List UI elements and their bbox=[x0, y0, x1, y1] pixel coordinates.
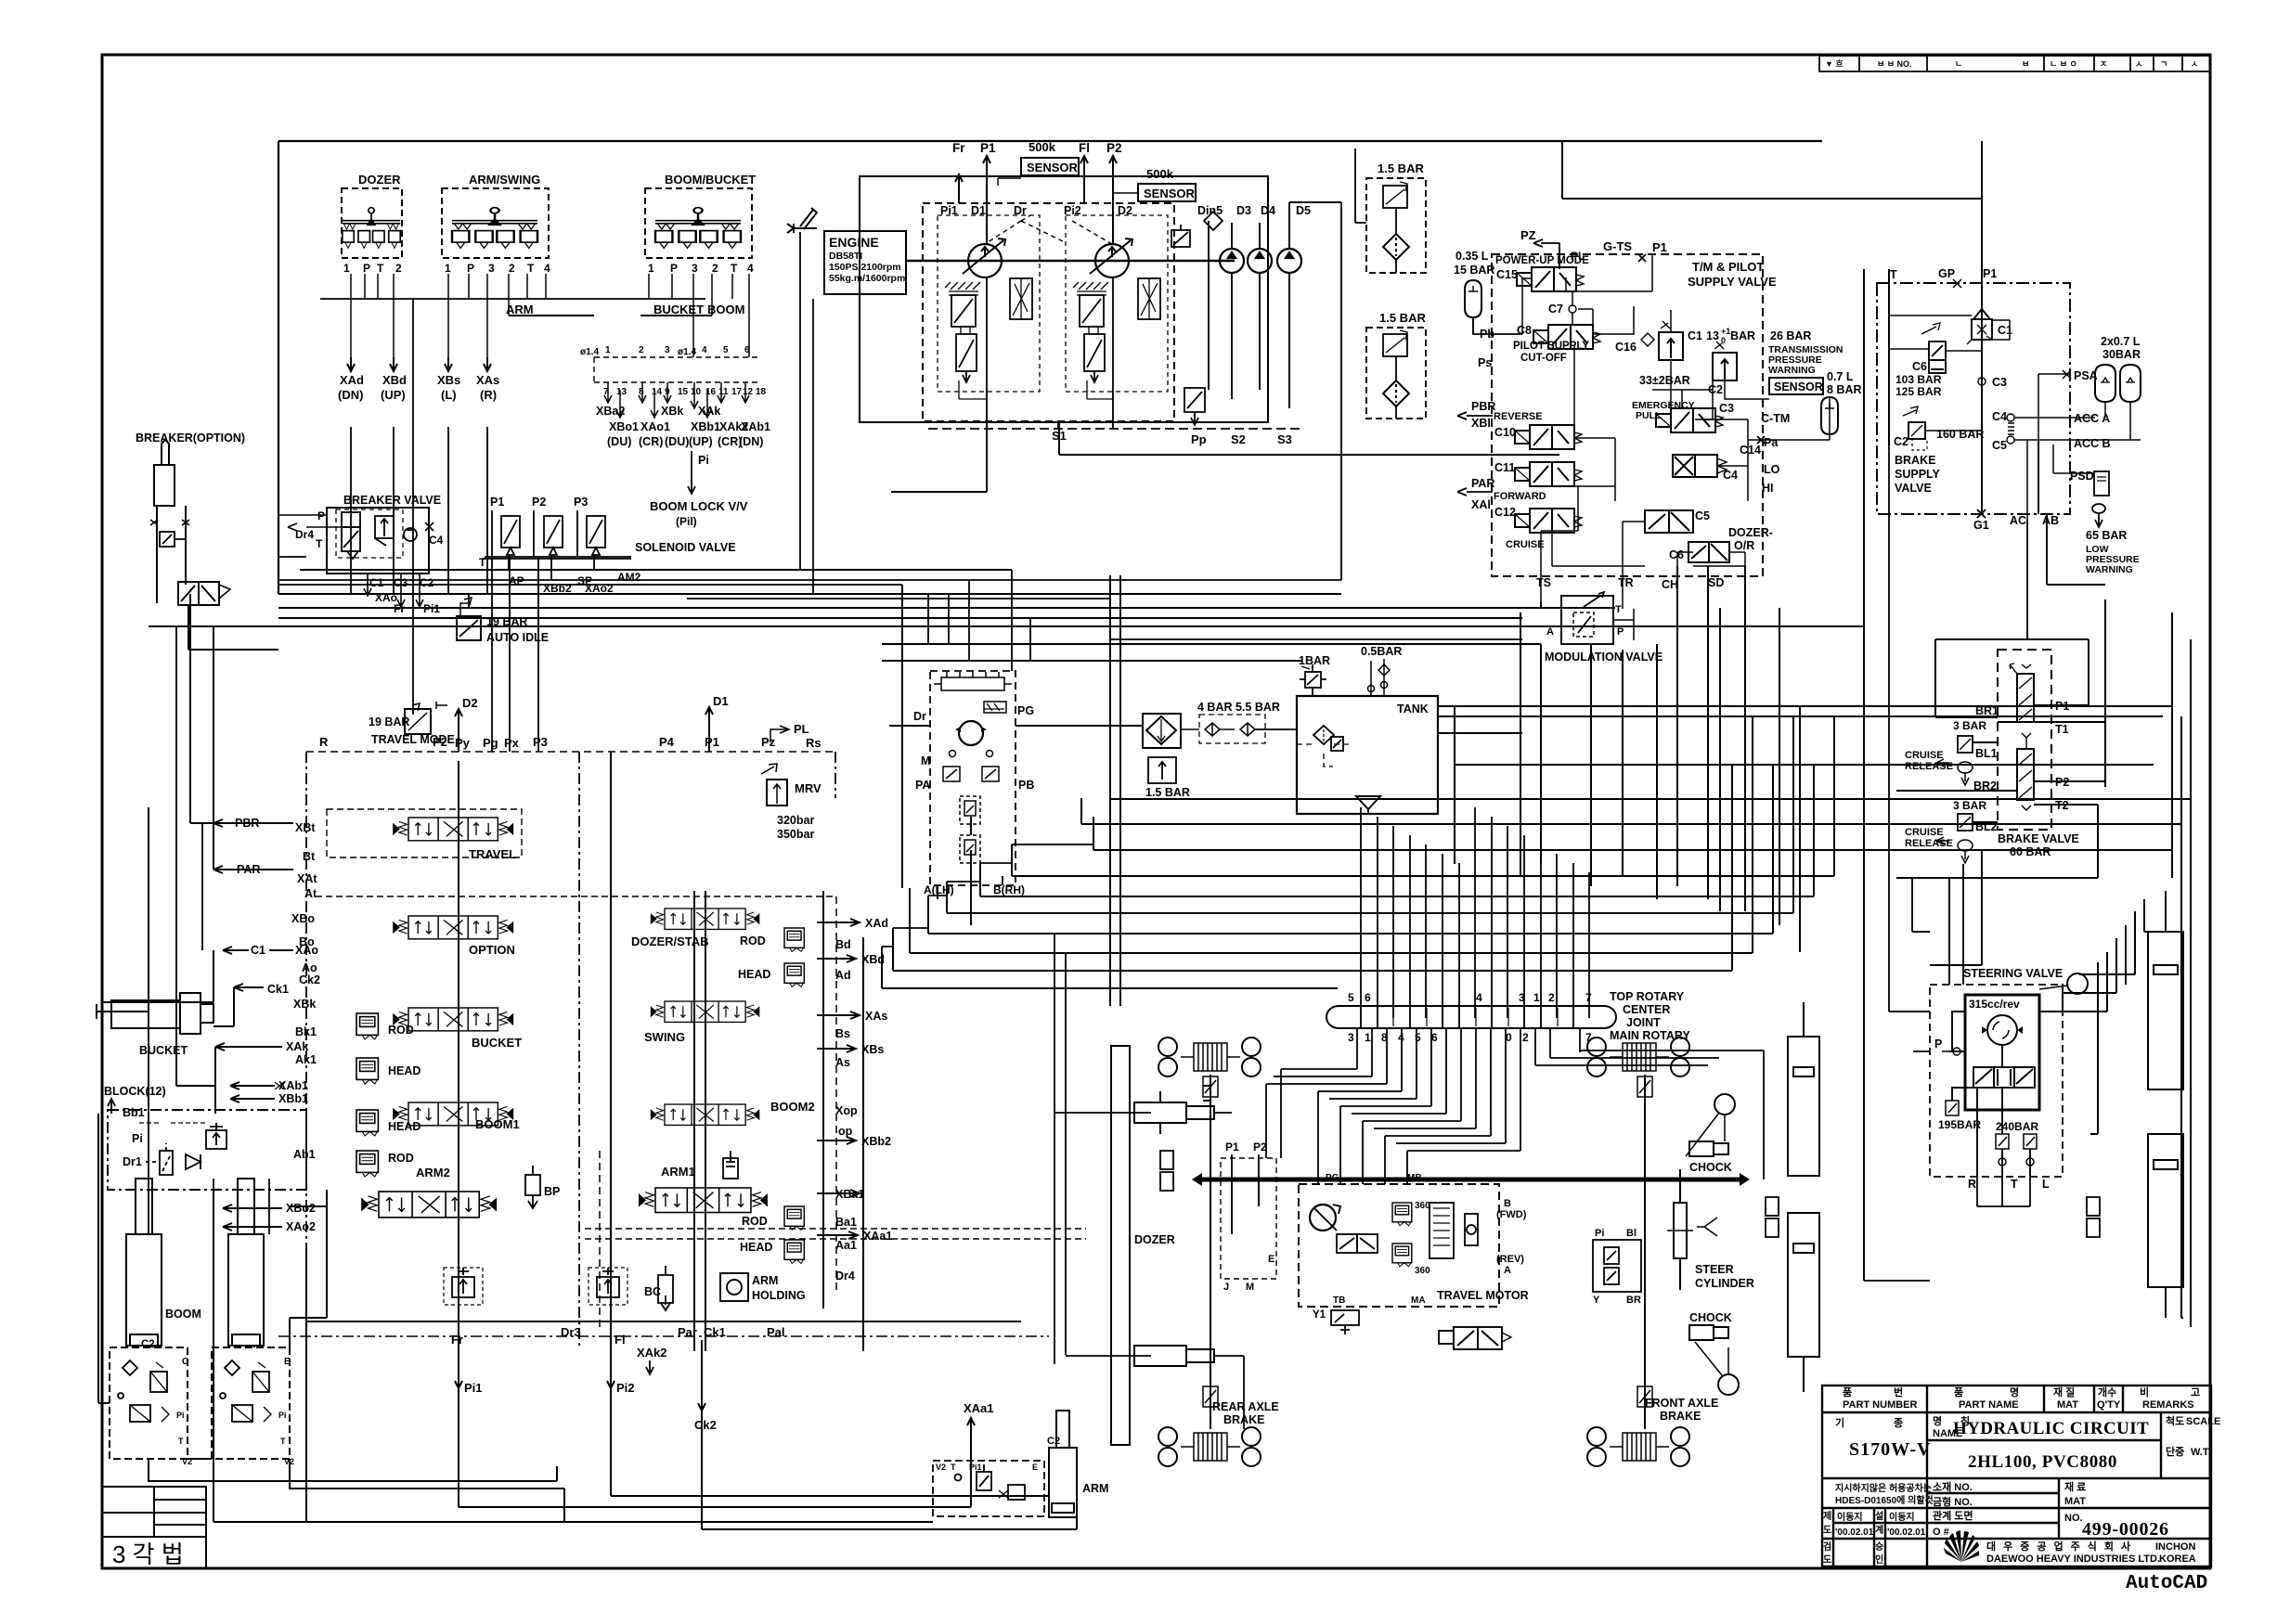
svg-text:P: P bbox=[363, 262, 370, 275]
valve TRAVEL bbox=[394, 818, 512, 841]
svg-text:Ck1: Ck1 bbox=[267, 983, 289, 996]
svg-text:Fl: Fl bbox=[615, 1333, 626, 1347]
svg-text:TS: TS bbox=[1536, 576, 1551, 589]
svg-text:XAo: XAo bbox=[295, 944, 318, 957]
rotary drop bundle bbox=[1361, 807, 1589, 1028]
svg-text:320bar: 320bar bbox=[777, 814, 814, 827]
svg-text:30BAR: 30BAR bbox=[2102, 348, 2141, 361]
svg-text:P1: P1 bbox=[1225, 1141, 1239, 1154]
svg-text:P: P bbox=[670, 262, 678, 275]
svg-text:1: 1 bbox=[445, 262, 451, 275]
svg-text:BOOM LOCK V/V: BOOM LOCK V/V bbox=[650, 499, 748, 513]
svg-text:6: 6 bbox=[744, 345, 750, 355]
svg-text:T: T bbox=[280, 1437, 286, 1446]
arm holding valve bbox=[720, 1273, 748, 1301]
svg-text:CRUISE: CRUISE bbox=[1905, 827, 1944, 838]
svg-text:160 BAR: 160 BAR bbox=[1936, 428, 1984, 441]
svg-text:명: 명 bbox=[1933, 1414, 1942, 1427]
din5 filter bbox=[1171, 212, 1223, 247]
svg-text:C2: C2 bbox=[1894, 435, 1908, 448]
drive shaft thick bbox=[1202, 1178, 1740, 1182]
svg-text:C4: C4 bbox=[429, 534, 444, 547]
svg-text:5: 5 bbox=[1415, 1031, 1421, 1044]
MCV long verticals bbox=[459, 752, 863, 1351]
travel motor dashed box bbox=[1299, 1184, 1499, 1307]
solenoid to MCV drops bbox=[351, 299, 538, 752]
label G1 bbox=[1977, 509, 1986, 518]
daewoo logo bbox=[1944, 1530, 1979, 1562]
third angle projection table bottom-left bbox=[102, 1487, 206, 1568]
svg-text:XAt: XAt bbox=[297, 872, 317, 885]
svg-text:고: 고 bbox=[2191, 1387, 2200, 1398]
steering inner box bbox=[1965, 995, 2039, 1110]
valve C1 bbox=[1967, 309, 1992, 344]
svg-text:2: 2 bbox=[1522, 1031, 1529, 1044]
svg-text:P2: P2 bbox=[433, 735, 447, 749]
svg-text:XBb2: XBb2 bbox=[861, 1135, 891, 1148]
wire swing feed bbox=[889, 725, 1143, 727]
svg-text:M: M bbox=[921, 754, 930, 767]
svg-text:Pp: Pp bbox=[1191, 432, 1207, 446]
rear axle brake pack upper bbox=[1181, 1043, 1240, 1071]
svg-text:As: As bbox=[835, 1056, 850, 1069]
svg-text:15: 15 bbox=[678, 387, 689, 397]
svg-text:0: 0 bbox=[1506, 1031, 1512, 1044]
svg-text:R: R bbox=[1968, 1178, 1976, 1191]
svg-text:1: 1 bbox=[648, 262, 654, 275]
svg-text:AC: AC bbox=[2010, 514, 2026, 527]
pump P2 variable bbox=[1090, 238, 1132, 277]
svg-text:BLOCK(12): BLOCK(12) bbox=[104, 1085, 166, 1098]
svg-text:C3: C3 bbox=[1719, 402, 1734, 415]
svg-text:Pi1: Pi1 bbox=[940, 204, 958, 217]
breaker valve assembly bbox=[278, 494, 444, 615]
svg-text:5: 5 bbox=[723, 345, 729, 355]
svg-text:DOZER: DOZER bbox=[1134, 1233, 1175, 1246]
svg-text:C2: C2 bbox=[1047, 1436, 1060, 1447]
left risers to mesh bbox=[882, 761, 1110, 988]
svg-text:(DN): (DN) bbox=[739, 435, 763, 448]
svg-text:T: T bbox=[1890, 268, 1897, 281]
svg-text:op: op bbox=[838, 1125, 853, 1138]
modulation valve bbox=[1545, 592, 1663, 664]
svg-text:C3: C3 bbox=[1992, 376, 2007, 389]
check HEAD boom1 bbox=[356, 1110, 378, 1136]
pump group dashed box bbox=[923, 203, 1174, 421]
svg-text:C2: C2 bbox=[141, 1339, 155, 1350]
boom lock valve 2 bbox=[212, 1347, 290, 1459]
steering hand wheel bbox=[2067, 973, 2088, 994]
valve SWING bbox=[651, 1001, 758, 1022]
pilot valve BOOM/BUCKET bbox=[645, 173, 756, 275]
svg-text:승: 승 bbox=[1875, 1541, 1883, 1553]
svg-text:SUPPLY VALVE: SUPPLY VALVE bbox=[1688, 275, 1777, 289]
title block bbox=[1822, 1386, 2211, 1566]
tank internal filter bbox=[1297, 726, 1352, 767]
filter 1.5 BAR upper bbox=[1355, 148, 1426, 273]
svg-text:P1: P1 bbox=[1983, 267, 1997, 280]
svg-text:11: 11 bbox=[718, 387, 729, 397]
svg-text:ㅅ: ㅅ bbox=[2191, 59, 2198, 69]
swing anticav checks bbox=[960, 796, 980, 863]
wires TM internal bbox=[1473, 243, 1830, 640]
svg-text:XBl: XBl bbox=[1471, 417, 1491, 430]
boom lock valve 1 bbox=[110, 1347, 188, 1459]
check HEAD bucket bbox=[356, 1058, 378, 1084]
svg-text:XBd: XBd bbox=[382, 373, 407, 387]
bottom solenoid valve bbox=[1439, 1327, 1511, 1349]
svg-text:ARM: ARM bbox=[752, 1274, 778, 1287]
svg-text:인: 인 bbox=[1875, 1553, 1883, 1566]
svg-text:AB: AB bbox=[2042, 514, 2059, 527]
svg-text:D2: D2 bbox=[462, 696, 478, 710]
svg-text:15 BAR: 15 BAR bbox=[1454, 264, 1494, 277]
wire P1 drop bbox=[1981, 141, 1983, 514]
svg-text:C11: C11 bbox=[1494, 461, 1515, 474]
MCV bottom rails bbox=[306, 1321, 1021, 1322]
svg-text:XAb1: XAb1 bbox=[741, 420, 770, 433]
svg-text:BRAKE VALVE: BRAKE VALVE bbox=[1998, 832, 2079, 845]
svg-text:척도: 척도 bbox=[2166, 1414, 2184, 1427]
svg-text:비: 비 bbox=[2140, 1386, 2149, 1398]
accumulator A bbox=[2095, 365, 2115, 402]
svg-text:2: 2 bbox=[395, 262, 402, 275]
Y1 brake valve bbox=[1331, 1310, 1359, 1334]
svg-text:PAR: PAR bbox=[1471, 477, 1494, 490]
svg-text:150PS/2100rpm: 150PS/2100rpm bbox=[829, 262, 901, 273]
svg-text:BAR: BAR bbox=[1730, 329, 1755, 342]
check HEAD arm1 bbox=[784, 1240, 804, 1263]
steer cylinder bbox=[1667, 1169, 1693, 1290]
svg-text:A(LH): A(LH) bbox=[924, 883, 954, 896]
svg-text:0.7 L: 0.7 L bbox=[1827, 370, 1854, 383]
svg-text:18: 18 bbox=[756, 387, 767, 397]
svg-text:XAa1: XAa1 bbox=[863, 1230, 892, 1243]
swing motor dashed box bbox=[930, 671, 1016, 885]
revision strip top right bbox=[1819, 56, 2210, 71]
steering motor bbox=[1987, 1015, 2017, 1045]
svg-text:103 BAR: 103 BAR bbox=[1895, 373, 1942, 386]
svg-text:PSD: PSD bbox=[2070, 470, 2094, 483]
svg-text:BL1: BL1 bbox=[1975, 747, 1998, 760]
svg-text:Bl: Bl bbox=[1626, 1228, 1637, 1239]
valve BP bbox=[525, 1166, 540, 1208]
svg-text:+1: +1 bbox=[1721, 327, 1730, 336]
breaker foot valve bbox=[178, 582, 230, 605]
wires brake valve bbox=[1896, 599, 2105, 878]
pilot valve DOZER bbox=[342, 173, 402, 275]
svg-text:BOOM/BUCKET: BOOM/BUCKET bbox=[665, 173, 756, 187]
travel motor plate valves bbox=[1430, 1203, 1478, 1258]
svg-text:Ck2: Ck2 bbox=[299, 973, 320, 986]
svg-text:195BAR: 195BAR bbox=[1938, 1118, 1981, 1131]
svg-text:CUT-OFF: CUT-OFF bbox=[1520, 353, 1567, 364]
svg-text:CYLINDER: CYLINDER bbox=[1695, 1277, 1754, 1290]
svg-text:Pz: Pz bbox=[761, 735, 776, 749]
arm lock block bbox=[933, 1461, 1044, 1516]
chock upper bbox=[1689, 1141, 1728, 1156]
front wheels upper bbox=[1587, 1038, 1606, 1076]
svg-text:AUTO IDLE: AUTO IDLE bbox=[486, 631, 549, 644]
rotary small pin ticks bbox=[1361, 1008, 1573, 1026]
svg-text:Pi1: Pi1 bbox=[464, 1381, 483, 1395]
svg-text:E: E bbox=[1032, 1463, 1038, 1472]
filter 1.5 BAR lower bbox=[1366, 311, 1426, 419]
svg-text:XBt: XBt bbox=[295, 821, 316, 834]
steering valve dash box bbox=[1930, 985, 2063, 1177]
svg-text:Dr4: Dr4 bbox=[295, 528, 314, 541]
dozer feed lines bbox=[1054, 934, 1134, 1364]
svg-text:XAk2: XAk2 bbox=[637, 1346, 667, 1360]
travel motor 360 checks bbox=[1392, 1203, 1412, 1226]
valve BUCKET bbox=[394, 1008, 512, 1031]
svg-text:T: T bbox=[527, 262, 535, 275]
boom cylinder 2 bbox=[228, 1179, 264, 1346]
svg-text:6: 6 bbox=[1431, 1031, 1438, 1044]
svg-text:CHOCK: CHOCK bbox=[1689, 1161, 1732, 1174]
pump area hatches bbox=[945, 278, 1160, 429]
svg-text:이동지: 이동지 bbox=[1889, 1511, 1915, 1523]
svg-text:XBb1: XBb1 bbox=[278, 1092, 308, 1105]
wire pump risers bbox=[955, 156, 1117, 244]
svg-text:C10: C10 bbox=[1494, 426, 1516, 439]
svg-text:'00.02.01: '00.02.01 bbox=[1835, 1527, 1874, 1538]
svg-text:개수: 개수 bbox=[2098, 1386, 2116, 1398]
svg-text:XAd: XAd bbox=[865, 917, 888, 930]
tank box bbox=[1297, 696, 1438, 814]
relief C1 bbox=[1659, 321, 1683, 360]
check ROD bucket bbox=[356, 1013, 378, 1039]
front axle brake pack lower bbox=[1610, 1433, 1669, 1461]
compensator arm1 bbox=[723, 1151, 738, 1179]
valve ARM2 bbox=[362, 1192, 496, 1218]
svg-text:품: 품 bbox=[1954, 1386, 1963, 1398]
svg-text:Ba1: Ba1 bbox=[835, 1216, 857, 1229]
svg-text:HI: HI bbox=[1762, 482, 1774, 495]
svg-text:500k: 500k bbox=[1146, 167, 1174, 181]
wire lower pilot bus bbox=[278, 570, 1341, 594]
manifold down arrows bbox=[604, 382, 749, 418]
svg-text:Y1: Y1 bbox=[1313, 1309, 1326, 1321]
svg-text:DAEWOO HEAVY INDUSTRIES LTD.: DAEWOO HEAVY INDUSTRIES LTD. bbox=[1986, 1553, 2160, 1565]
mid horizontal buses bbox=[149, 608, 1864, 661]
svg-text:ARM2: ARM2 bbox=[416, 1166, 450, 1179]
svg-text:BOOM2: BOOM2 bbox=[770, 1100, 815, 1114]
svg-text:S3: S3 bbox=[1277, 432, 1292, 446]
wire Pi drop bbox=[688, 451, 695, 494]
svg-text:XAo1: XAo1 bbox=[640, 420, 670, 433]
svg-text:1: 1 bbox=[1533, 991, 1540, 1004]
svg-text:T: T bbox=[951, 1463, 956, 1472]
svg-text:BUCKET: BUCKET bbox=[472, 1036, 522, 1050]
breaker option cylinder bbox=[136, 432, 245, 603]
svg-text:T1: T1 bbox=[2055, 723, 2069, 736]
svg-text:PZ: PZ bbox=[1520, 228, 1536, 242]
svg-text:소재 NO.: 소재 NO. bbox=[1933, 1480, 1973, 1493]
svg-text:C4: C4 bbox=[1723, 469, 1738, 482]
svg-text:XBk: XBk bbox=[661, 405, 683, 418]
svg-text:T: T bbox=[178, 1437, 184, 1446]
travel motor solenoid bbox=[1337, 1234, 1378, 1253]
svg-text:XAl: XAl bbox=[1471, 498, 1491, 511]
wire breaker drop bbox=[188, 605, 278, 650]
svg-text:S2: S2 bbox=[1231, 432, 1246, 446]
relief near Pp bbox=[1184, 388, 1205, 425]
svg-text:2x0.7 L: 2x0.7 L bbox=[2101, 335, 2141, 348]
svg-text:HEAD: HEAD bbox=[388, 1120, 420, 1133]
svg-text:Pi2: Pi2 bbox=[1064, 204, 1081, 217]
svg-text:SCALE: SCALE bbox=[2186, 1416, 2220, 1427]
svg-text:LO: LO bbox=[1764, 463, 1780, 476]
svg-text:C1: C1 bbox=[251, 944, 265, 957]
manifold labels bbox=[596, 405, 770, 448]
svg-text:XBs: XBs bbox=[861, 1043, 884, 1056]
svg-text:2: 2 bbox=[509, 262, 515, 275]
svg-text:FORWARD: FORWARD bbox=[1494, 491, 1546, 502]
svg-text:BC: BC bbox=[644, 1285, 661, 1298]
svg-text:도: 도 bbox=[1823, 1554, 1831, 1566]
svg-text:P1: P1 bbox=[980, 141, 996, 155]
svg-text:XBb1: XBb1 bbox=[691, 420, 720, 433]
svg-text:5: 5 bbox=[1348, 991, 1354, 1004]
svg-text:CHOCK: CHOCK bbox=[1689, 1311, 1732, 1324]
svg-text:SD: SD bbox=[1708, 576, 1724, 589]
svg-text:D1: D1 bbox=[713, 694, 729, 708]
svg-text:6: 6 bbox=[1365, 991, 1371, 1004]
chock lower bbox=[1689, 1325, 1728, 1340]
svg-text:TOP ROTARY: TOP ROTARY bbox=[1610, 990, 1685, 1003]
svg-text:재 질: 재 질 bbox=[2053, 1386, 2075, 1398]
swing motor circle bbox=[959, 721, 983, 745]
svg-text:8 BAR: 8 BAR bbox=[1827, 383, 1862, 396]
breaker hammer marks bbox=[150, 520, 189, 525]
svg-text:C15: C15 bbox=[1496, 268, 1518, 281]
steering drop bundle bbox=[1912, 850, 1982, 985]
rear axle brake valve bbox=[1203, 1076, 1218, 1407]
svg-text:B(RH): B(RH) bbox=[993, 883, 1025, 896]
svg-text:L: L bbox=[2042, 1178, 2050, 1191]
svg-text:T/M & PILOT: T/M & PILOT bbox=[1692, 260, 1764, 274]
svg-text:Y: Y bbox=[1593, 1295, 1600, 1306]
manifold strip bbox=[594, 357, 761, 382]
svg-text:BUCKET: BUCKET bbox=[653, 303, 704, 316]
svg-text:BUCKET: BUCKET bbox=[139, 1044, 188, 1057]
svg-text:CRUISE: CRUISE bbox=[1506, 539, 1545, 550]
valve DOZER/STAB bbox=[651, 909, 758, 929]
svg-text:SENSOR: SENSOR bbox=[1027, 161, 1079, 174]
svg-text:TRAVEL MOTOR: TRAVEL MOTOR bbox=[1437, 1289, 1529, 1302]
svg-text:P1: P1 bbox=[490, 496, 504, 509]
solenoid valve group bbox=[479, 496, 736, 595]
svg-text:Xop: Xop bbox=[835, 1104, 858, 1117]
svg-text:Dr: Dr bbox=[1014, 204, 1027, 217]
breaker relief bbox=[160, 532, 186, 547]
valve C2 160bar bbox=[1903, 406, 1927, 450]
svg-text:3: 3 bbox=[488, 262, 495, 275]
svg-text:금형 NO.: 금형 NO. bbox=[1933, 1495, 1973, 1508]
svg-text:13: 13 bbox=[616, 387, 627, 397]
dozer cylinder bottom bbox=[1134, 1346, 1214, 1366]
swing motor PG valve bbox=[984, 702, 1006, 713]
svg-text:ARM: ARM bbox=[506, 303, 534, 316]
svg-text:Dr: Dr bbox=[913, 710, 926, 723]
svg-text:Dr1: Dr1 bbox=[123, 1155, 142, 1168]
svg-text:INCHON: INCHON bbox=[2155, 1541, 2195, 1553]
svg-text:BOOM: BOOM bbox=[707, 303, 744, 316]
svg-text:(R): (R) bbox=[480, 388, 497, 402]
svg-text:Fl: Fl bbox=[1079, 141, 1090, 155]
T/M internals extra bbox=[1522, 277, 1748, 586]
svg-text:CH: CH bbox=[1662, 578, 1678, 591]
svg-text:3 각 법: 3 각 법 bbox=[112, 1540, 184, 1568]
regulator 1 bbox=[949, 278, 1032, 382]
svg-text:D5: D5 bbox=[1296, 204, 1311, 217]
right port labels bbox=[835, 917, 892, 1282]
svg-text:MAT: MAT bbox=[2064, 1496, 2086, 1507]
sensor box bbox=[1769, 378, 1823, 394]
arrow XBs bbox=[445, 357, 452, 371]
svg-text:C5: C5 bbox=[1695, 509, 1710, 522]
svg-text:C6: C6 bbox=[1669, 548, 1684, 561]
svg-text:4: 4 bbox=[702, 345, 707, 355]
svg-text:O/R: O/R bbox=[1734, 539, 1754, 552]
svg-text:Py: Py bbox=[455, 736, 471, 750]
svg-text:1.5 BAR: 1.5 BAR bbox=[1379, 311, 1426, 325]
block dashed box bbox=[108, 1110, 306, 1190]
rotary lower drops bbox=[1266, 1028, 1764, 1184]
svg-text:W.T: W.T bbox=[2191, 1447, 2209, 1458]
svg-text:360: 360 bbox=[1415, 1201, 1430, 1211]
gear pump D5 bbox=[1277, 249, 1301, 273]
svg-text:10: 10 bbox=[691, 387, 702, 397]
check ROD dozer bbox=[784, 928, 804, 951]
wire feed top right bbox=[1562, 141, 1982, 1281]
svg-text:단중: 단중 bbox=[2166, 1445, 2184, 1458]
rear wheels lower bbox=[1158, 1427, 1177, 1466]
svg-text:C-TM: C-TM bbox=[1761, 412, 1790, 425]
svg-text:CRUISE: CRUISE bbox=[1905, 750, 1944, 761]
rotary pin numbers bottom bbox=[1348, 1031, 1592, 1044]
svg-text:T: T bbox=[731, 262, 738, 275]
travel brake dashed box bbox=[1221, 1158, 1276, 1279]
arrow XBd bbox=[390, 357, 397, 371]
svg-text:Ao: Ao bbox=[302, 961, 317, 974]
svg-text:TRAVEL: TRAVEL bbox=[469, 847, 516, 861]
svg-text:J: J bbox=[1223, 1282, 1229, 1293]
svg-text:P2: P2 bbox=[1253, 1141, 1267, 1154]
svg-text:12: 12 bbox=[743, 387, 754, 397]
left bottom risers bbox=[126, 1012, 327, 1234]
svg-text:(DN): (DN) bbox=[338, 388, 363, 402]
wires steering bbox=[1949, 984, 2063, 1177]
dashed pilot lines bbox=[985, 215, 1112, 244]
svg-text:Pi2: Pi2 bbox=[616, 1381, 635, 1395]
brake supply dash box bbox=[1877, 283, 2070, 514]
svg-text:NO.: NO. bbox=[2064, 1513, 2083, 1524]
svg-text:PART NUMBER: PART NUMBER bbox=[1843, 1399, 1918, 1411]
P1/P2 risers to travel area bbox=[1134, 1075, 1259, 1429]
svg-text:BREAKER VALVE: BREAKER VALVE bbox=[343, 494, 441, 507]
left port labels bbox=[235, 817, 320, 1233]
svg-text:14: 14 bbox=[652, 387, 663, 397]
svg-text:1: 1 bbox=[343, 262, 350, 275]
engine box bbox=[824, 231, 906, 294]
svg-text:HOLDING: HOLDING bbox=[752, 1289, 806, 1302]
svg-text:XAo2: XAo2 bbox=[286, 1220, 316, 1233]
svg-text:T: T bbox=[1615, 604, 1622, 615]
svg-text:AutoCAD: AutoCAD bbox=[2126, 1573, 2207, 1594]
svg-text:0.35 L: 0.35 L bbox=[1456, 250, 1489, 263]
